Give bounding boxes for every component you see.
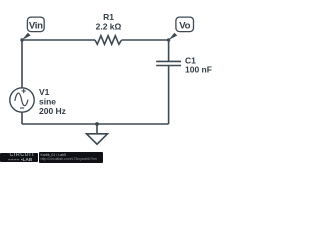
svg-text:Vo: Vo bbox=[179, 20, 190, 31]
wire: bottom bbox=[22, 123, 169, 125]
svg-text:100 nF: 100 nF bbox=[185, 65, 212, 75]
ground stem bbox=[96, 124, 98, 134]
svg-text:Vin: Vin bbox=[29, 20, 43, 31]
resistor R1 bbox=[95, 36, 122, 45]
Vin label box bbox=[27, 17, 44, 32]
wire: top left segment bbox=[22, 39, 95, 41]
svg-text:R1: R1 bbox=[103, 12, 114, 22]
node dot Vo bbox=[167, 38, 170, 41]
watermark: CircuitLab logo block bbox=[0, 153, 38, 163]
wire: V1 bottom to bottom wire bbox=[21, 112, 23, 124]
V1 sine waveform bbox=[15, 93, 28, 106]
V1 minus sign bbox=[20, 107, 24, 109]
svg-text:sine: sine bbox=[39, 97, 56, 107]
ground triangle bbox=[87, 134, 108, 144]
node dot Vin bbox=[20, 38, 23, 41]
svg-text:2.2 kΩ: 2.2 kΩ bbox=[96, 22, 122, 32]
wire: right vertical upper (to C1) bbox=[168, 40, 170, 61]
Vo label pointer bbox=[169, 33, 178, 40]
wire: right vertical lower (C1 to bottom) bbox=[168, 66, 170, 125]
svg-text:200 Hz: 200 Hz bbox=[39, 106, 66, 116]
wire: top right segment bbox=[122, 39, 169, 41]
wire: left vertical (Vin node to V1 top) bbox=[21, 40, 23, 88]
Vo label box bbox=[176, 17, 194, 32]
Vin label pointer bbox=[22, 33, 31, 40]
watermark: circuit name and url block bbox=[39, 152, 104, 163]
V1 plus sign bbox=[22, 89, 26, 93]
capacitor C1 plates bbox=[156, 61, 181, 65]
node junction dot (ground at bottom wire) bbox=[95, 122, 99, 126]
svg-text:V1: V1 bbox=[39, 87, 50, 97]
voltage source V1 circle bbox=[10, 88, 34, 112]
